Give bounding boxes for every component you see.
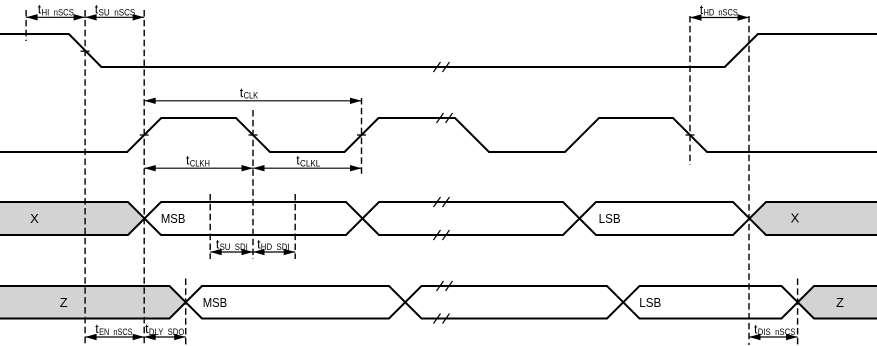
dimension arrow tCLKH [144, 167, 253, 169]
SDO bus rail (top-start) [0, 286, 877, 319]
tick on SCLK rising edge 2 [357, 134, 366, 136]
dimension arrow tDIS_nSCS [749, 336, 798, 338]
svg-text:X: X [791, 210, 800, 225]
break marks on nSCS low level [434, 62, 441, 72]
svg-text:CLK: CLK [244, 91, 259, 101]
dashed guide: tSU_SDI start [209, 194, 211, 259]
break marks on SDI top rail [434, 197, 441, 207]
svg-text:CLKH: CLKH [190, 158, 210, 168]
dashed guide: nSCS rising edge / SDI end [748, 16, 750, 345]
dashed guide: tHD_SDI end [294, 194, 296, 259]
SDO bus rail (bottom-start) [0, 286, 877, 319]
nSCS waveform [0, 34, 877, 67]
SDI don't-care region X (left) [0, 202, 145, 235]
tick on SCLK falling edge 1 [249, 134, 258, 136]
svg-text:LSB: LSB [639, 295, 661, 310]
dimension arrow tHD_nSCS [690, 17, 749, 19]
svg-text:HD_SDI: HD_SDI [261, 242, 290, 252]
svg-text:HD_nSCS: HD_nSCS [704, 8, 738, 18]
tick on SCLK rising edge 1 [140, 134, 149, 136]
svg-text:HI_nSCS: HI_nSCS [42, 7, 75, 17]
svg-text:Z: Z [60, 295, 68, 310]
dimension arrow tHD_SDI [253, 251, 295, 253]
dashed guide: SDO MSB valid [185, 279, 187, 346]
dashed guide: SDO hi-Z start [797, 279, 799, 346]
tick on nSCS falling edge [81, 50, 90, 52]
svg-text:CLKL: CLKL [300, 158, 320, 168]
dimension arrow tEN_nSCS [85, 336, 144, 338]
dimension arrow tHI_nSCS [26, 16, 85, 18]
svg-text:X: X [30, 211, 39, 226]
svg-text:SU_SDI: SU_SDI [220, 242, 248, 252]
SDI bus rail (bottom-start) [0, 202, 877, 235]
dashed guide: SCLK first rising edge [143, 10, 145, 345]
dashed guide: SCLK second rising edge [361, 98, 363, 177]
svg-text:SU_nSCS: SU_nSCS [99, 7, 136, 17]
SDO hi-Z region Z (left) [0, 286, 186, 319]
tick on SCLK last falling edge [686, 134, 695, 136]
break marks on SDO bottom rail [434, 314, 441, 324]
SDI bus rail (top-start) [0, 202, 877, 235]
svg-text:MSB: MSB [161, 211, 186, 226]
svg-text:Z: Z [836, 295, 844, 310]
dimension arrow tCLKL [253, 167, 362, 169]
svg-text:DIS_nSCS: DIS_nSCS [758, 327, 796, 337]
break marks on SDI bottom rail [434, 230, 441, 240]
svg-text:EN_nSCS: EN_nSCS [99, 327, 133, 337]
break marks on SDO top rail [437, 281, 444, 291]
dashed guide: SCLK last falling edge [689, 16, 691, 165]
dimension arrow tCLK [144, 100, 361, 102]
SDI don't-care region X (right) [750, 202, 877, 235]
SCLK waveform [0, 118, 877, 152]
dimension arrow tDLY_SDO [144, 336, 186, 338]
svg-text:DLY_SDO: DLY_SDO [149, 327, 185, 337]
dashed guide: tHI_nSCS start [25, 10, 27, 41]
svg-text:MSB: MSB [203, 295, 228, 310]
dashed guide: nSCS falling edge [84, 10, 86, 345]
SDO hi-Z region Z (right) [798, 286, 877, 319]
dashed guide: SCLK falling edge [252, 110, 254, 259]
svg-text:LSB: LSB [599, 211, 621, 226]
dimension arrow tSU_nSCS [85, 16, 144, 18]
break marks on SCLK high level [437, 113, 444, 123]
dimension arrow tSU_SDI [210, 251, 253, 253]
